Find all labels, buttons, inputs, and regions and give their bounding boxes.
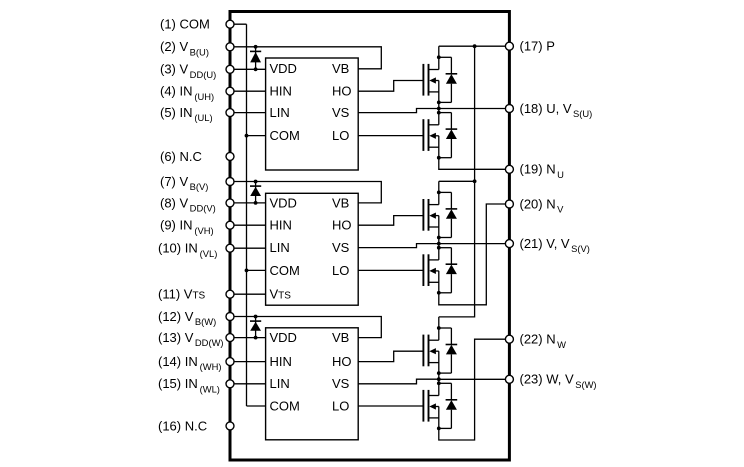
svg-text:HO: HO (332, 84, 352, 99)
svg-text:COM: COM (270, 128, 300, 143)
wire Q2L source to pin 20 NV (439, 204, 510, 305)
bootstrap diode D1 (VDD(U) to VB(U)) (250, 45, 261, 71)
wire IN(UL) pin5 to driver U1 LIN (230, 112, 266, 114)
svg-text:LO: LO (332, 263, 349, 278)
body diode of Q3L (437, 381, 457, 430)
wire driver HO to Q2H gate (358, 216, 423, 226)
svg-text:LO: LO (332, 398, 349, 413)
svg-text:(6) N.C: (6) N.C (160, 149, 202, 164)
wire IN(WL) pin15 to driver U3 LIN (230, 383, 266, 385)
pin 4 (4) IN (160, 84, 234, 102)
wire driver VS to midpoint W (358, 379, 439, 384)
wire VB(V) pin7 to VB loop (230, 182, 381, 203)
transistor Q2H high-side MOSFET (phase V) (423, 199, 438, 238)
pin 7 (7) V (160, 174, 234, 192)
body diode of Q2H (437, 191, 457, 240)
wire P bus to Q3H drain (438, 317, 440, 340)
svg-text:VS: VS (332, 105, 350, 120)
svg-text:HIN: HIN (270, 84, 292, 99)
pin 22 (22) N (505, 332, 566, 350)
pin 16 (16) N.C (158, 418, 234, 433)
wire IN(UH) pin4 to driver U1 HIN (230, 90, 266, 92)
pin 19 (19) N (505, 162, 564, 180)
pin 17 (17) P (505, 39, 555, 54)
svg-text:COM: COM (270, 263, 300, 278)
body diode of Q1H (437, 55, 457, 104)
wire VDD(U) pin3 to driver U1 (230, 68, 266, 70)
pin 13 (13) V (158, 330, 234, 348)
wire VB(U) pin2 to VB loop (230, 47, 381, 69)
wire Q3L source to pin 22 NW (439, 339, 510, 440)
wire driver LO to Q1L gate (358, 135, 423, 137)
wire driver VS to midpoint U (358, 109, 439, 113)
wire driver VS to midpoint V (358, 244, 439, 248)
svg-text:COM: COM (270, 398, 300, 413)
transistor Q3H high-side MOSFET (phase W) (423, 335, 438, 374)
wire pin1 COM to COM rail (230, 23, 247, 25)
wire U midpoint to pin 18 (439, 108, 510, 110)
wire P rail to pin 17 (439, 45, 510, 47)
wire V midpoint to pin 21 (439, 243, 510, 245)
transistor Q1H high-side MOSFET (phase U) (423, 64, 438, 103)
bootstrap diode D3 (VDD(W) to VB(W)) (250, 315, 261, 340)
wire VDD(W) pin13 to driver U3 (230, 337, 266, 339)
transistor Q3L low-side MOSFET (phase W) (423, 390, 438, 429)
wire driver LO to Q3L gate (358, 405, 423, 407)
node P bus tap (473, 44, 477, 48)
IC package outline (230, 12, 509, 461)
gate driver U2 (phase V) (266, 193, 359, 305)
wire IN(WH) pin14 to driver U3 HIN (230, 361, 266, 363)
pin 10 (10) IN (158, 241, 234, 259)
node half-bridge W midpoint (437, 373, 441, 381)
svg-text:LIN: LIN (270, 376, 290, 391)
pin 5 (5) IN (160, 105, 234, 123)
svg-text:LIN: LIN (270, 240, 290, 255)
node half-bridge V midpoint (437, 238, 441, 246)
wire VB(W) pin12 to VB loop (230, 317, 381, 338)
svg-text:VDD: VDD (270, 330, 297, 345)
pin 23 (23) W, V (505, 372, 596, 390)
pin 8 (8) V (160, 195, 234, 213)
body diode of Q3H (437, 326, 457, 375)
gate driver U1 (phase U) (266, 58, 359, 170)
wire driver HO to Q3H gate (358, 351, 423, 361)
pin 21 (21) V, V (505, 236, 589, 254)
body diode of Q1L (437, 111, 457, 160)
pin 11 VTS (158, 287, 234, 302)
svg-text:LO: LO (332, 128, 349, 143)
wire W midpoint to pin 23 (439, 378, 510, 380)
transistor Q1L low-side MOSFET (phase U) (423, 119, 438, 158)
wire Q1L source to pin 19 NU (439, 158, 510, 170)
pin 12 (12) V (158, 309, 234, 327)
bootstrap diode D2 (VDD(V) to VB(V)) (250, 180, 261, 205)
node COM tap driver U2 (245, 269, 249, 273)
svg-text:VDD: VDD (270, 61, 297, 76)
wire midpoint to Q2L drain (438, 244, 440, 260)
wire P bus to Q2H drain (438, 181, 440, 204)
svg-text:(16) N.C: (16) N.C (158, 418, 207, 433)
wire COM rail to driver U3 COM pin (247, 405, 266, 407)
svg-text:HO: HO (332, 218, 352, 233)
svg-text:LIN: LIN (270, 105, 290, 120)
net COM rail vertical (246, 24, 248, 406)
svg-text:VB: VB (332, 195, 349, 210)
svg-text:HIN: HIN (270, 354, 292, 369)
svg-text:(1) COM: (1) COM (160, 17, 210, 32)
wire COM rail to driver U2 COM pin (247, 269, 266, 271)
svg-text:VS: VS (332, 240, 350, 255)
pin 3 (3) V (160, 62, 234, 80)
pin 6 (6) N.C (160, 149, 234, 164)
wire midpoint to Q1L drain (438, 109, 440, 125)
node P bus tap V (473, 179, 477, 183)
transistor Q2L low-side MOSFET (phase V) (423, 254, 438, 292)
pin 15 (15) IN (158, 376, 234, 394)
wire P bus to Q1H drain (438, 46, 440, 69)
pin 14 (14) IN (158, 354, 234, 372)
wire IN(VH) pin9 to driver U2 HIN (230, 224, 266, 226)
svg-text:HIN: HIN (270, 218, 292, 233)
gate driver U3 (phase W) (266, 328, 359, 440)
wire IN(VL) pin10 to driver U2 LIN (230, 247, 266, 249)
pin 20 (20) N (505, 196, 564, 214)
wire driver LO to Q2L gate (358, 269, 423, 271)
wire driver HO to Q1H gate (358, 81, 423, 92)
wire midpoint to Q3L drain (438, 379, 440, 395)
node COM tap driver U1 (245, 134, 249, 138)
pin 9 (9) IN (160, 218, 234, 236)
svg-text:VB: VB (332, 330, 349, 345)
pin 18 (18) U, V (505, 101, 592, 119)
pin 1 (1) COM (160, 17, 234, 32)
net P bus vertical (439, 46, 475, 317)
svg-text:VS: VS (332, 376, 350, 391)
wire COM rail to driver U1 COM pin (247, 135, 266, 137)
svg-text:VDD: VDD (270, 195, 297, 210)
pin 2 (2) V (160, 39, 234, 57)
svg-text:HO: HO (332, 354, 352, 369)
wire VTS pin11 to driver U2 VTS (230, 293, 266, 295)
wire P bus to V drain rail (439, 180, 475, 182)
node half-bridge U midpoint (437, 102, 441, 110)
svg-text:VB: VB (332, 61, 349, 76)
svg-text:(17) P: (17) P (520, 39, 555, 54)
wire VDD(V) pin8 to driver U2 (230, 202, 266, 204)
body diode of Q2L (437, 246, 457, 295)
